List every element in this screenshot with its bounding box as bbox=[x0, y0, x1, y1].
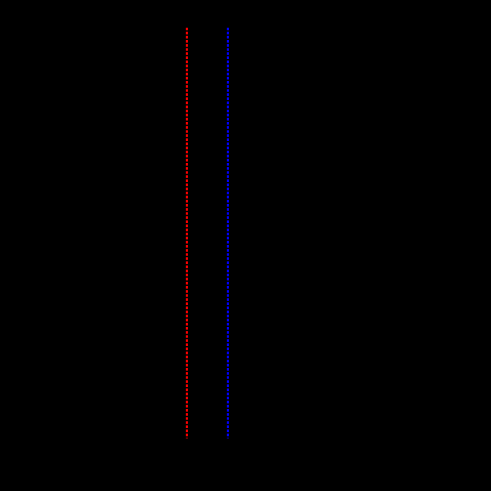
blue dotted vertical line bbox=[227, 28, 229, 439]
red dotted vertical line bbox=[186, 28, 188, 439]
